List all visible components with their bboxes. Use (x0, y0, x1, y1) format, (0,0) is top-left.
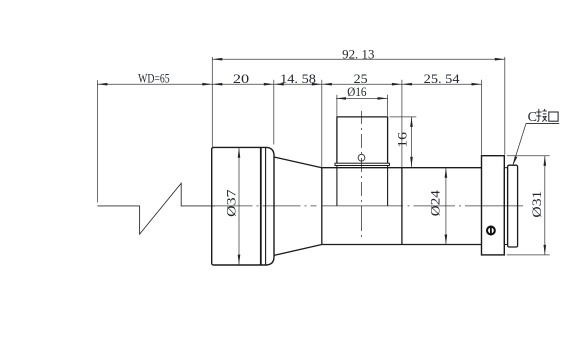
dimension 14.58 line (274, 83, 322, 85)
dimension Ø37 line (238, 148, 240, 265)
svg-text:25. 54: 25. 54 (424, 71, 460, 86)
extension line at cylinder end (273, 80, 275, 145)
svg-text:16: 16 (395, 131, 410, 147)
dimension Ø16 line (336, 97, 388, 99)
barrel bottom edge (322, 244, 482, 246)
dimension 16 top extension (390, 116, 417, 118)
svg-text:Ø37: Ø37 (223, 189, 238, 217)
extension line at taper end (321, 80, 323, 167)
port bore right wall inside body (387, 166, 389, 206)
front cylinder edge line 1 (260, 148, 262, 265)
object-plane break line (zigzag) (97, 183, 214, 234)
mid block right wall (401, 168, 403, 245)
leader line C-mount callout (513, 124, 526, 167)
extension line WD left (object plane) (96, 80, 98, 202)
extension line at mid block end (401, 80, 403, 167)
svg-text:92. 13: 92. 13 (342, 46, 374, 61)
dimension 25.54 line (402, 83, 482, 85)
extension line at flange rear face (504, 57, 506, 155)
mid block left wall (321, 168, 323, 245)
svg-text:14. 58: 14. 58 (280, 71, 316, 86)
svg-text:C: C (528, 110, 537, 125)
svg-text:Ø24: Ø24 (428, 190, 443, 217)
thread relief neck (504, 168, 507, 245)
centerline horizontal (optical axis, dash-dot) (214, 205, 523, 207)
set screw on flange (487, 227, 495, 235)
dimension WD=65 line (97, 83, 212, 85)
dimension Ø31 extension lines (507, 156, 550, 255)
dimension Ø16 extension lines (337, 95, 388, 116)
callout underline (526, 123, 559, 125)
taper cone bottom edge (274, 245, 322, 256)
taper cone top edge (274, 157, 322, 168)
top port collar ring (335, 163, 389, 165)
callout glyph 接 (hand drawn strokes) (536, 109, 547, 122)
dimension 92.13 line (212, 58, 505, 60)
extension line at lens front face (211, 57, 213, 147)
top port tube (Ø16) (337, 117, 388, 163)
svg-text:20: 20 (233, 71, 249, 86)
extension line at flange front (481, 80, 483, 155)
dimension Ø31 line (544, 156, 546, 255)
set screw on port collar (358, 154, 365, 161)
dimension 25 line (322, 83, 402, 85)
mount flange (482, 156, 505, 255)
dimension Ø24 line (445, 168, 447, 245)
barrel top edge (Ø24 section) (322, 167, 482, 169)
front cylinder edge line 2 (corner tangent) (265, 148, 267, 265)
lens front cylinder body (Ø37) (212, 147, 274, 265)
C-mount thread ring (508, 165, 518, 247)
svg-text:WD=65: WD=65 (138, 70, 170, 85)
dimension 20 line (212, 83, 273, 85)
callout glyph 口 (hand drawn box) (549, 112, 558, 121)
centerline vertical of top port (dash-dot) (361, 111, 363, 237)
port bore left wall inside body (336, 166, 338, 206)
dimension 16 line (411, 117, 413, 167)
svg-text:Ø16: Ø16 (347, 84, 367, 99)
svg-text:Ø31: Ø31 (529, 191, 544, 218)
